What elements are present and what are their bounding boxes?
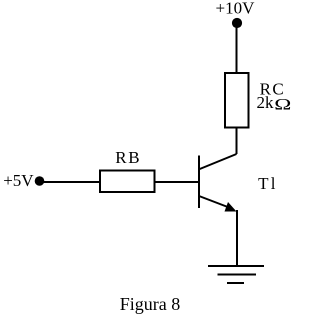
svg-text:l: l <box>271 174 276 193</box>
svg-text:2k: 2k <box>257 93 275 112</box>
svg-text:T: T <box>258 174 269 193</box>
svg-text:+10V: +10V <box>216 0 256 18</box>
svg-text:Ω: Ω <box>274 96 291 114</box>
svg-text:Figura 8: Figura 8 <box>120 294 181 314</box>
svg-text:RB: RB <box>115 148 141 167</box>
svg-text:+5V: +5V <box>3 171 34 190</box>
